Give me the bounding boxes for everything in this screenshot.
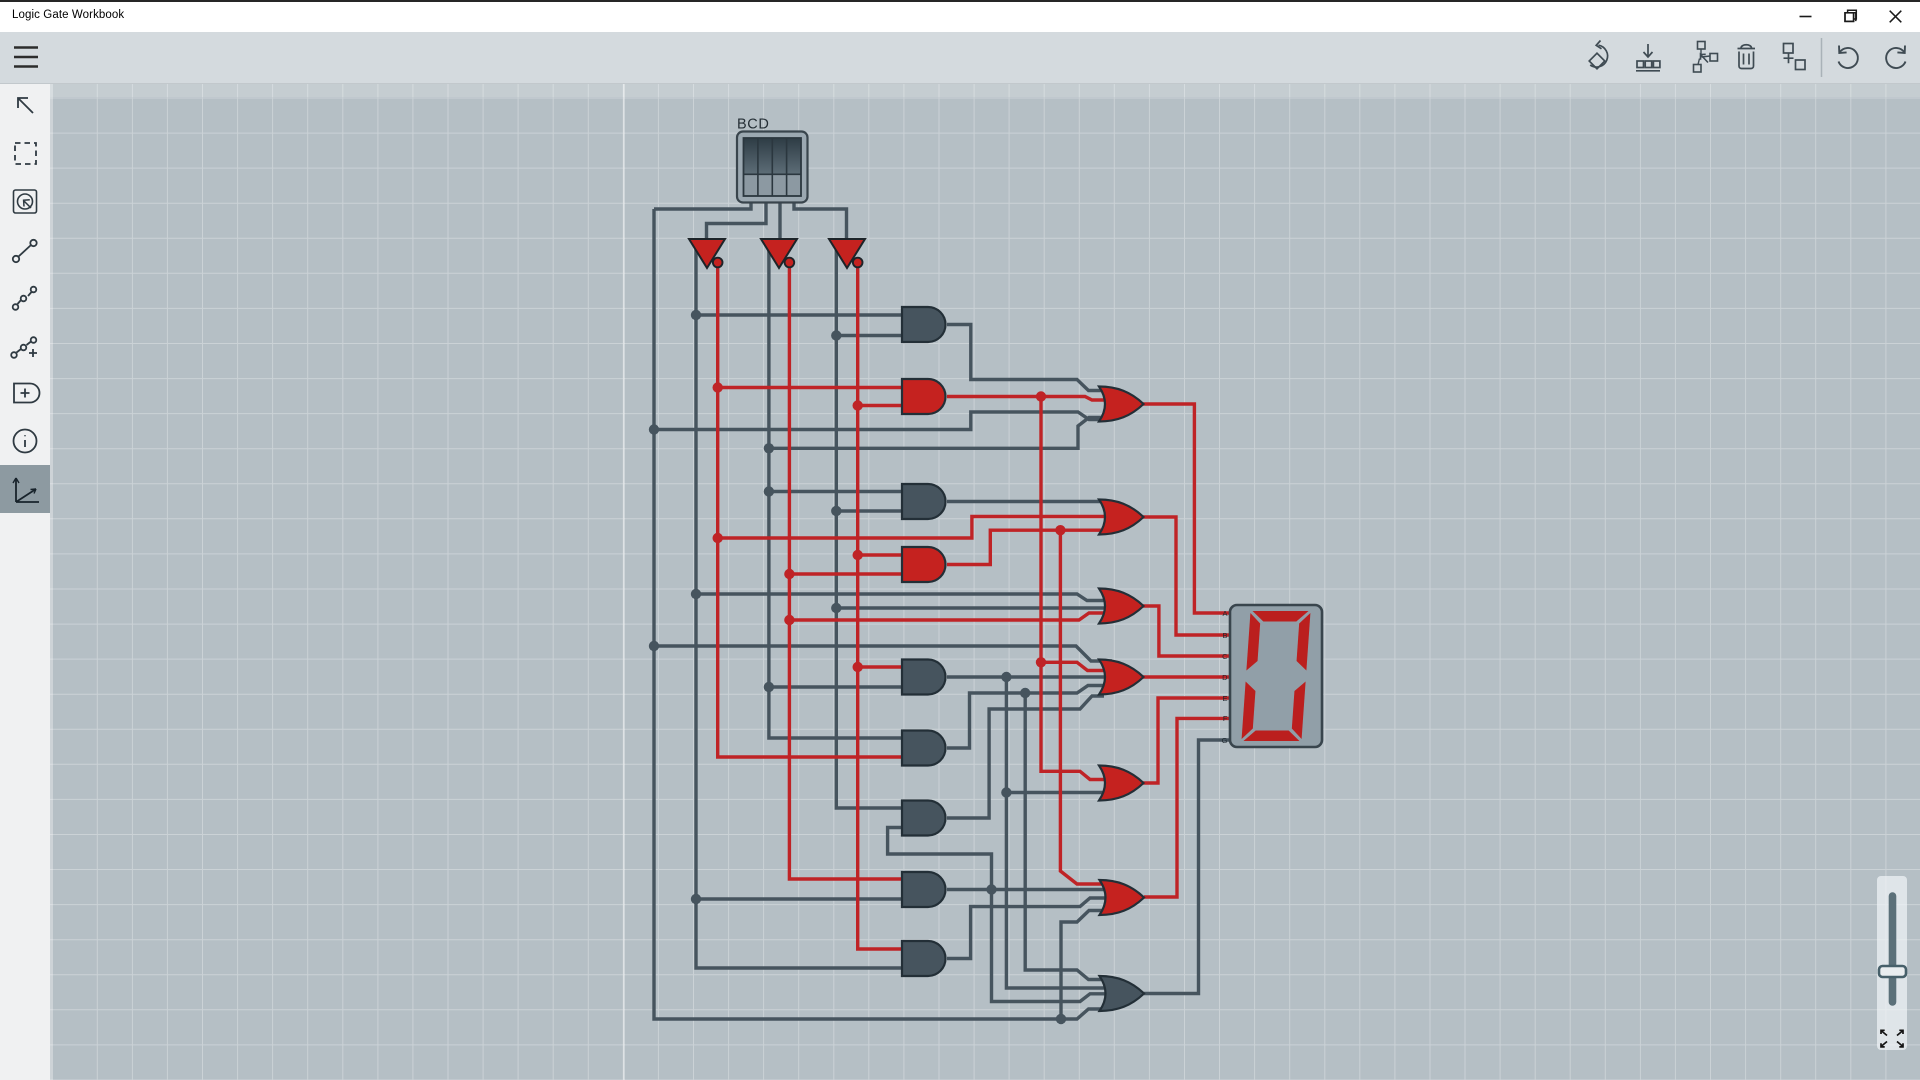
sidebar tool wire-segments [13, 287, 37, 310]
and-gate AND9 [902, 941, 946, 976]
input switch BCD [737, 132, 808, 203]
node NOT2 / AND4 tap [784, 569, 794, 579]
sidebar tool zoom-select [14, 190, 37, 213]
wire NOT1 branch to OR2 [718, 517, 1112, 539]
wire bus D branch to OR1 [654, 412, 1112, 430]
wire bottom bus branch to OR6 [1061, 911, 1112, 1020]
sidebar tool add-node [11, 337, 37, 358]
toolbar icon import-part [1636, 44, 1660, 71]
node bus A / AND1 tap [691, 310, 701, 320]
or-gate OR5 [1099, 766, 1144, 801]
wire AND5 branch vertical [1006, 677, 1112, 988]
node NOT3 / AND2 tap [853, 400, 863, 410]
wire AND9 output to OR6 [947, 898, 1112, 959]
wire AND7 output to OR4 [947, 696, 1104, 818]
zoom slider panel [1877, 876, 1907, 1050]
segment D [1243, 731, 1300, 742]
and-gate AND6 [902, 731, 946, 766]
node bus B / AND5 tap [764, 682, 774, 692]
toolbar icon undo [1839, 46, 1858, 68]
wire OR7 output to display G [1144, 740, 1229, 994]
wire bus C branch to AND3 [836, 509, 906, 512]
and-gate AND5 [902, 660, 946, 695]
wire bus C vertical [836, 242, 906, 808]
toolbar icon delete (trash) [1738, 45, 1756, 69]
wire bus B vertical [769, 242, 906, 738]
and-gate AND1 [902, 307, 946, 342]
inverter NOT3 [829, 239, 865, 268]
wire AND5 output to OR4 [947, 675, 1112, 678]
node AND2 output tap [1036, 391, 1046, 401]
toolbar icon rotate [1589, 41, 1607, 69]
wire OR6 output to display F [1144, 718, 1229, 897]
window restore button [1845, 10, 1856, 21]
wire NOT3 output bus [858, 266, 906, 949]
wire AND8 output to OR6 [947, 888, 1112, 891]
node bus B / AND3 tap [764, 486, 774, 496]
wire AND4 branch to OR6 [1060, 530, 1112, 884]
node NOT3 / AND5 tap [853, 662, 863, 672]
node NOT1 / OR2 tap [713, 533, 723, 543]
sidebar tool new-part [14, 384, 40, 403]
wire BCD.2 to NOT1 input [707, 202, 767, 240]
wire NOT1 branch to AND2 [718, 386, 906, 389]
sidebar tool marquee select [15, 143, 36, 164]
and-gate AND7 [902, 801, 946, 836]
node AND8 output tap [986, 884, 996, 894]
and-gate AND3 [902, 484, 946, 519]
node AND5 branch / OR5 tap [1001, 787, 1011, 797]
wire OR1 output to display A [1143, 404, 1229, 613]
node bus B / OR1 tap [764, 443, 774, 453]
wire BCD.1 to bus D [654, 202, 751, 209]
and-gate AND2 [902, 379, 946, 414]
sidebar tool info [14, 430, 37, 453]
segment A [1252, 611, 1309, 622]
node bus D / OR4 tap [649, 641, 659, 651]
or-gate OR4 [1099, 660, 1144, 695]
wire bus D branch to OR4 [654, 646, 1112, 661]
wire AND2 output to OR1 [947, 397, 1112, 401]
sidebar tool wire [13, 240, 37, 262]
wire AND6 branch to OR7 [1025, 693, 1112, 980]
wire AND3 output to OR2 [947, 500, 1112, 503]
wire bus A branch to OR3 [696, 594, 1112, 601]
wire NOT2 branch to AND4 [789, 572, 906, 575]
node bus C / AND3 tap [831, 506, 841, 516]
and-gate AND8 [902, 872, 946, 907]
wire AND8 branch to OR7 [992, 890, 1113, 1002]
wire AND4 output to OR2 [947, 530, 1112, 564]
node bottom bus tap [1056, 1014, 1066, 1024]
wire bus B branch to AND5 [769, 685, 906, 688]
wire AND1 output to OR1 [947, 325, 1112, 391]
node NOT3 / AND4 tap [853, 550, 863, 560]
wire bus B branch to AND3 [769, 490, 906, 493]
toolbar separator [1821, 38, 1823, 77]
wire NOT1 output bus [718, 266, 906, 757]
or-gate OR1 [1099, 387, 1144, 422]
wire BCD.4 to NOT3 input [794, 202, 847, 240]
wire NOT3 branch to AND2 [858, 404, 906, 407]
toolbar hamburger menu [14, 48, 38, 67]
window close button [1890, 11, 1902, 23]
wire bus A branch to AND1 [696, 313, 906, 316]
and-gate AND4 [902, 547, 946, 582]
wire AND5 branch to OR5 [1006, 791, 1112, 794]
wire bus C branch to OR3 [836, 606, 1112, 609]
toolbar icon move-selection [1694, 42, 1718, 73]
wire AND6 output to OR4 [947, 686, 1112, 749]
fullscreen button [1881, 1030, 1903, 1047]
wire OR4 output to display D [1143, 675, 1229, 678]
node bus C / AND1 tap [831, 330, 841, 340]
toolbar icon duplicate [1784, 44, 1806, 70]
toolbar icon redo [1886, 46, 1905, 68]
or-gate OR2 [1099, 500, 1144, 535]
wire bus D vertical [654, 209, 1112, 1019]
seven-segment display DS1 [1230, 605, 1322, 747]
wire bus A branch to AND8 [696, 897, 906, 900]
or-gate OR6 [1100, 880, 1145, 915]
segment C [1291, 682, 1306, 740]
node AND4 branch / OR2 tap [1055, 525, 1065, 535]
wire NOT2 branch to OR3 [789, 613, 1112, 620]
sidebar tool ruler (selected) [13, 478, 39, 502]
wire OR3 output to display C [1143, 606, 1229, 656]
segment F [1246, 613, 1261, 671]
or-gate OR3 [1099, 589, 1144, 624]
or-gate OR7 [1100, 976, 1145, 1011]
node NOT2 / OR3 tap [784, 615, 794, 625]
wire bus B branch to OR1 [769, 418, 1112, 449]
segment E [1242, 682, 1257, 740]
wire AND8 branch to AND7 [888, 828, 992, 890]
node bus A / OR3 tap [691, 589, 701, 599]
node AND5 output tap [1001, 672, 1011, 682]
wire bus C branch to AND1 [836, 334, 906, 337]
zoom slider handle [1879, 966, 1906, 977]
wire bus A vertical [696, 242, 906, 968]
node NOT1 / AND2 tap [713, 382, 723, 392]
segment B [1296, 613, 1311, 671]
node bus D / OR1 tap [649, 424, 659, 434]
zoom slider track [1889, 896, 1897, 1002]
node AND6 output tap [1020, 688, 1030, 698]
wire NOT3 branch to AND5 [858, 665, 906, 668]
wire OR2 output to display B [1143, 517, 1229, 635]
sidebar tool pointer [18, 98, 33, 113]
inverter NOT1 [689, 239, 725, 268]
wire NOT2 output bus [789, 266, 906, 879]
wire AND2 branch to OR4 [1041, 662, 1112, 670]
wire AND2 branch vertical [1041, 397, 1112, 780]
wire BCD.3 to NOT2 input [778, 202, 781, 240]
window minimize button [1800, 16, 1812, 18]
node AND2 branch / OR4 tap [1036, 657, 1046, 667]
node bus A / AND8 tap [691, 894, 701, 904]
node bus C / OR3 tap [831, 603, 841, 613]
wire NOT3 branch to AND4 [858, 553, 906, 556]
inverter NOT2 [761, 239, 797, 268]
wire OR5 output to display E [1143, 698, 1229, 783]
